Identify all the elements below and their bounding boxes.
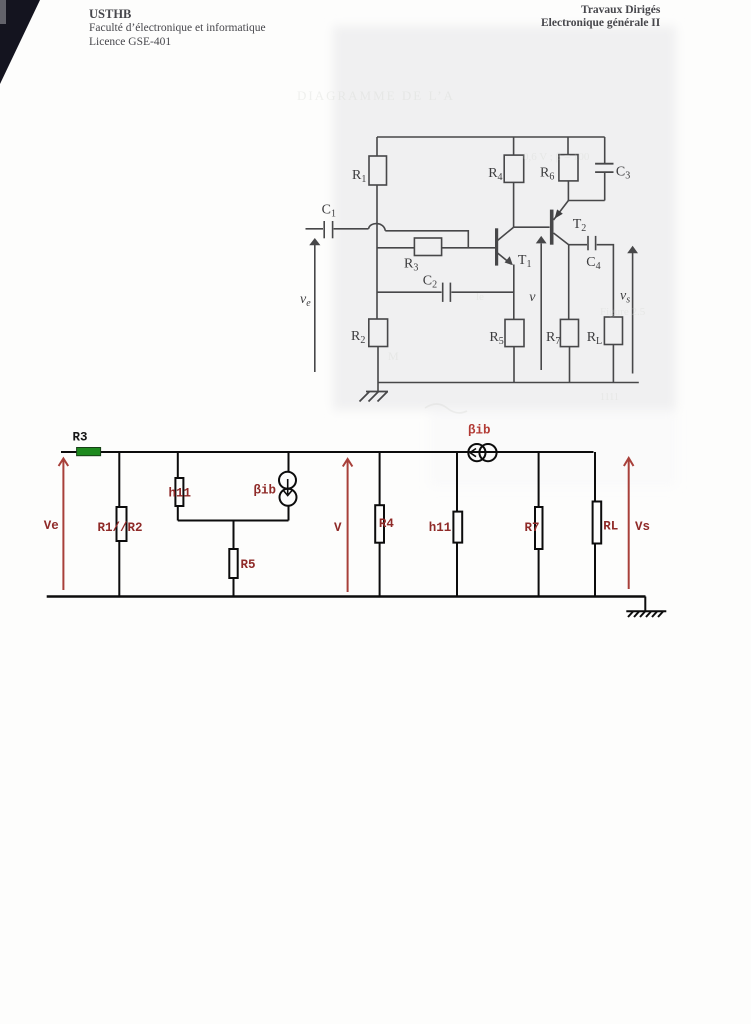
wire left vertical R1 to R2 [376, 185, 378, 319]
svg-text:R1//R2: R1//R2 [98, 521, 143, 535]
wire emitter node horizontal [568, 200, 604, 202]
wire R4 to bottom rail [379, 543, 381, 597]
wire h11-2 to bottom rail [456, 543, 458, 597]
capacitor C1 [323, 221, 325, 238]
wire R5 to bottom rail [233, 578, 235, 597]
capacitor C2 [442, 283, 444, 302]
wire h11 to jog [177, 506, 179, 521]
wire R5 to rail [513, 347, 515, 383]
wire C2 left [377, 291, 442, 293]
wire node to R3 left [377, 247, 414, 249]
wire R1 drop [376, 137, 378, 156]
wire R3 to T1 base [442, 247, 496, 249]
wire source to jog [288, 506, 290, 521]
ground upper circuit [360, 392, 389, 402]
resistor RL [593, 502, 602, 544]
arrow vs [620, 246, 638, 374]
wire C1 to hop [334, 228, 369, 230]
arrow v [529, 236, 546, 370]
svg-text:RL: RL [603, 520, 618, 534]
resistor R1//R2 [117, 507, 127, 541]
svg-text:βib: βib [468, 424, 491, 438]
arrow Vs (red) [624, 458, 650, 589]
wire R7 drop [538, 452, 540, 507]
wire C3 top drop [604, 137, 606, 163]
wire beta-ib source drop [288, 452, 290, 472]
header left [89, 7, 131, 22]
wire hop over vertical [369, 224, 386, 231]
wire bottom rail [47, 595, 646, 597]
svg-text:h11: h11 [429, 521, 452, 535]
wire hop to base node [385, 231, 468, 248]
transistor T1 [497, 227, 532, 270]
wire T2 base [514, 226, 550, 228]
svg-text:V: V [334, 521, 342, 535]
wire R7 to bottom rail [538, 549, 540, 597]
resistor R7 [535, 507, 543, 549]
resistor h11 second [453, 512, 462, 543]
resistor R5 [505, 319, 524, 346]
bleedthrough faint marks [297, 88, 646, 413]
svg-text:Ve: Ve [44, 519, 59, 533]
wire h11-2 drop [456, 452, 458, 512]
resistor h11 [175, 478, 183, 506]
wire R1//R2 drop [118, 452, 120, 507]
svg-text:R7: R7 [525, 521, 540, 535]
wire top rail [61, 451, 594, 453]
wire R5 drop [233, 521, 235, 550]
resistor R4 [504, 155, 524, 182]
wire h11 drop [177, 452, 179, 478]
svg-text:R4: R4 [379, 517, 395, 531]
wire C3 bottom [604, 173, 606, 201]
wire T2 collector down to R7 [568, 245, 570, 320]
wire R6 bottom to emitter node [567, 181, 569, 201]
current source beta-ib 2 (on rail) [468, 424, 497, 462]
resistor R7 [560, 319, 578, 346]
resistor R6 [559, 155, 578, 181]
wire C4 to RL [597, 245, 614, 317]
wire ground stub [644, 597, 646, 612]
resistor RL [604, 317, 622, 345]
wire R4 drop [513, 137, 515, 155]
arrow Ve (red) [44, 459, 68, 591]
wire RL to rail [612, 345, 614, 383]
svg-text:h11: h11 [169, 487, 192, 501]
wire R1//R2 to bottom rail [118, 541, 120, 597]
current source beta-ib 1 [254, 472, 297, 506]
wire input to C1 [306, 228, 324, 230]
arrow V (red) [334, 459, 352, 592]
wire RL to bottom rail [594, 544, 596, 597]
corner black triangle [0, 0, 40, 84]
wire collector to C4 [569, 244, 587, 246]
wire R6 drop [567, 137, 569, 155]
resistor R2 [369, 319, 388, 347]
arrow ve [300, 238, 320, 372]
wire RL drop [594, 452, 596, 502]
wire R2 to ground [377, 347, 379, 392]
wire top rail [377, 136, 605, 138]
header right [581, 4, 660, 16]
resistor R4 [375, 505, 384, 543]
svg-text:βib: βib [254, 484, 277, 498]
svg-text:Vs: Vs [635, 520, 650, 534]
wire T1 collector up to R4 [513, 182, 515, 227]
wire bottom rail upper circuit [378, 382, 639, 384]
resistor R3 (green) [77, 448, 101, 456]
wire R4 drop [379, 452, 381, 505]
svg-text:R3: R3 [73, 431, 88, 445]
wire R7 to rail [569, 347, 571, 383]
resistor R1 [369, 156, 387, 185]
svg-text:R5: R5 [241, 558, 256, 572]
resistor R5 [229, 549, 237, 578]
ground lower circuit [626, 611, 666, 617]
transistor T2 [552, 201, 587, 245]
capacitor C4 [587, 236, 589, 250]
wire T1 emitter down [513, 265, 515, 320]
capacitor C3 [595, 163, 613, 165]
wire jog horizontal [178, 520, 289, 522]
resistor R3 [414, 238, 441, 256]
wire C2 right [451, 291, 513, 293]
